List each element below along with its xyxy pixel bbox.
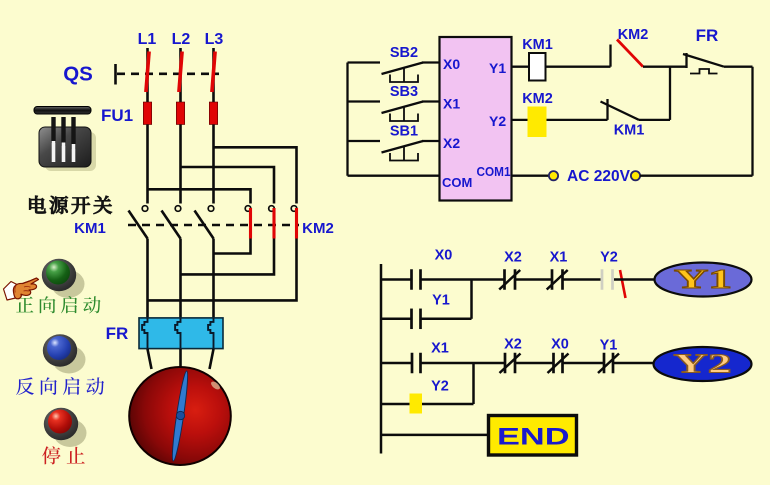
svg-text:Y1: Y1 [674, 264, 732, 294]
svg-text:QS: QS [63, 63, 93, 86]
svg-text:FR: FR [696, 26, 719, 45]
svg-text:FU1: FU1 [101, 106, 133, 125]
wire motor lead 2 [179, 349, 182, 369]
svg-text:X2: X2 [504, 337, 522, 353]
svg-text:SB2: SB2 [390, 45, 418, 61]
ladder contact X1 NC (rung1) [551, 269, 554, 290]
contactor KM2 fixed contact circle [269, 206, 275, 212]
svg-text:X1: X1 [431, 341, 449, 357]
wire L3 column [212, 125, 215, 204]
ladder END rung wire [381, 434, 487, 437]
contact KM1 NC fixed bar [606, 99, 608, 120]
ladder contact X2 NC (rung1) [503, 269, 506, 290]
motor propeller hub [176, 411, 184, 419]
contactor KM1 fixed contact circle [208, 206, 214, 212]
pushbutton SB2 left wire [348, 61, 381, 63]
ladder output coil Y2 ellipse [654, 347, 752, 381]
svg-text:Y1: Y1 [600, 338, 618, 354]
wire L2 branch to KM2 middle [181, 167, 275, 204]
thermal relay FR heater element [175, 318, 180, 349]
button dome [46, 261, 70, 285]
svg-text:X2: X2 [443, 135, 460, 151]
contact FR thermal bump symbol [690, 69, 718, 74]
wire terminal to right bus [640, 175, 753, 177]
svg-text:Y1: Y1 [489, 60, 506, 76]
pushbutton SB2 blade [382, 63, 424, 75]
wire junction vertical Y2 to Y1 line [669, 67, 671, 120]
switch QS knife-switch prong [51, 117, 55, 143]
ladder rung2 wire rail to X1 [381, 362, 412, 365]
ladder branch2 wire Y2 to junction [422, 403, 474, 406]
wire L1 column [146, 125, 149, 204]
pushbutton SB3 left wire [348, 100, 381, 102]
svg-text:Y1: Y1 [432, 293, 450, 309]
switch QS knife-switch prong [71, 117, 75, 149]
wire Y1 to KM1 coil [512, 66, 530, 68]
ladder rung1 wire X1 to Y2 [563, 278, 601, 281]
svg-text:X0: X0 [551, 337, 569, 353]
text 停止 (stop) [42, 446, 61, 464]
ladder left power rail [380, 264, 383, 454]
svg-text:Y2: Y2 [600, 250, 618, 266]
wire KM2 middle output crossing to phase2 [181, 239, 275, 275]
switch QS knife-switch handle bar [34, 107, 91, 115]
ladder contact X2 NC (rung2) [504, 353, 507, 374]
wire COM line [348, 175, 440, 177]
fuse FU1 element [209, 102, 217, 125]
ladder rung2 wire X0 to Y1 [563, 362, 605, 365]
pushbutton SB3 blade [382, 102, 424, 114]
svg-text:Y2: Y2 [489, 113, 506, 129]
coil KM2 (energized, yellow) [528, 107, 547, 138]
switch QS knife-switch blade slot [72, 144, 76, 162]
svg-text:X0: X0 [435, 248, 453, 264]
ladder contact X1 (NO, rung2) [411, 353, 414, 374]
button dome [47, 336, 71, 360]
pushbutton SB1 right wire [422, 140, 440, 142]
ladder rung1 wire X2 to X1 [515, 278, 552, 281]
svg-text:L1: L1 [138, 31, 157, 48]
button shadow [53, 346, 86, 374]
text 正向启动 (forward start) [16, 297, 33, 313]
wire right bus [751, 67, 753, 176]
wire KM2 coil to KM1 NC contact [547, 119, 608, 121]
ladder rung1 wire X0 to X2 [421, 278, 505, 281]
wire L3 branch to KM2 right [214, 147, 297, 203]
wire phase column top [212, 48, 215, 102]
ladder rung2 wire X2 to X0 [515, 362, 554, 365]
button base [43, 334, 77, 367]
wire phase column top [146, 48, 149, 102]
switch QS red blade [146, 52, 149, 93]
ladder contact X0 NC (rung2) [552, 353, 555, 374]
svg-text:KM1: KM1 [74, 220, 106, 237]
ladder branch2 junction vertical [472, 363, 475, 404]
svg-text:SB3: SB3 [390, 84, 418, 100]
ladder branch junction vertical [470, 280, 473, 319]
svg-text:COM1: COM1 [477, 165, 511, 179]
switch QS linkage dashed line [117, 73, 219, 76]
pushbutton SB2 right wire [422, 61, 440, 63]
thermal relay FR box [139, 318, 223, 349]
svg-text:KM2: KM2 [302, 220, 334, 237]
thermal relay FR heater element [208, 318, 213, 349]
switch QS knife-switch icon shadow [45, 132, 96, 171]
wire L2 column [179, 125, 182, 204]
svg-text:L2: L2 [172, 31, 191, 48]
svg-text:X1: X1 [550, 250, 568, 266]
svg-text:END: END [497, 424, 570, 451]
ladder rung1 wire rail to X0 [381, 278, 412, 281]
contact KM2 NC fixed bar [609, 45, 611, 67]
ladder branch2 wire rail to Y2 contact [381, 403, 410, 406]
wire KM2 right output crossing to phase1 [148, 239, 297, 301]
ladder branch wire Y1 to junction [421, 318, 472, 321]
button base [44, 408, 78, 441]
wire Y2 to KM2 coil [512, 119, 529, 121]
wire motor lead 1 [148, 349, 152, 369]
contactor KM2 blade (closed, live) [295, 208, 298, 239]
contactor KM1 blade (open) [195, 211, 214, 239]
svg-text:X0: X0 [443, 56, 460, 72]
button base [42, 259, 76, 292]
ladder contact Y2 NC (rung1, just opened - gray bars) [601, 269, 604, 290]
pushbutton SB1 blade [382, 141, 424, 153]
wire KM2 NC to FR junction [643, 66, 687, 68]
ladder contact Y1 (NO, branch) [410, 309, 413, 330]
switch QS red blade [212, 52, 215, 93]
fuse FU1 element [176, 102, 184, 125]
svg-text:X1: X1 [443, 96, 460, 112]
switch QS knife-switch blade slot [52, 141, 56, 162]
switch QS left tick [114, 64, 117, 85]
text 反向启动 (reverse start) [16, 377, 34, 394]
ladder contact X0 (NO) [410, 269, 413, 290]
contactor KM2 blade (closed, live) [249, 208, 252, 239]
wire KM2 left output crossing to phase3 [214, 239, 251, 254]
switch QS red blade [179, 52, 182, 93]
KM1-KM2 mechanical linkage dashed [128, 224, 299, 226]
contactor KM1 fixed contact circle [175, 206, 181, 212]
svg-text:L3: L3 [205, 31, 224, 48]
svg-text:X2: X2 [504, 250, 522, 266]
wire KM1 outputs down [146, 239, 149, 318]
wire motor lead 3 [210, 349, 214, 369]
svg-text:Y2: Y2 [431, 379, 449, 395]
text 电源开关 (power switch) [29, 196, 46, 213]
svg-text:SB1: SB1 [390, 124, 418, 140]
pushbutton SB1 left wire [348, 140, 381, 142]
terminal circle right [631, 171, 640, 180]
switch QS knife-switch blade slot [62, 143, 66, 163]
svg-text:KM1: KM1 [614, 123, 645, 139]
wire KM1 coil to KM2 NC contact [546, 66, 611, 68]
wire phase column top [179, 48, 182, 102]
ladder contact Y1 NC (rung2) [603, 353, 606, 374]
contactor KM1 blade (open) [129, 211, 148, 239]
PLC box [440, 37, 512, 201]
ladder rung2 wire X1 to X2 [421, 362, 506, 365]
contactor KM2 fixed contact circle [291, 206, 297, 212]
contact KM2 NC blade (open, red) [617, 40, 643, 67]
button dome [48, 410, 72, 434]
svg-text:COM: COM [442, 175, 472, 190]
fuse FU1 element [143, 102, 151, 125]
contact KM1 NC blade [601, 102, 640, 120]
pushbutton SB1 actuator [390, 147, 418, 161]
pushbutton SB2 actuator [390, 68, 418, 82]
ladder contact Y2 NC red slash [620, 270, 626, 298]
svg-text:KM2: KM2 [522, 91, 553, 107]
wire KM1 NC to junction [639, 119, 670, 121]
contactor KM2 fixed contact circle [245, 206, 251, 212]
wire left input bus [346, 63, 348, 176]
contactor KM2 blade (closed, live) [272, 208, 275, 239]
switch QS knife-switch prong [61, 117, 65, 146]
ladder END box [489, 416, 577, 456]
ladder contact Y2 energized highlight [410, 394, 423, 414]
motor propeller blade [170, 370, 190, 461]
ladder rung2 wire Y1 to coil Y2 [613, 362, 655, 365]
coil KM1 (de-energized, white) [529, 53, 546, 81]
motor M body [129, 367, 231, 465]
thermal relay FR heater element [142, 318, 147, 349]
svg-text:KM2: KM2 [618, 27, 649, 43]
contactor KM1 blade (open) [162, 211, 181, 239]
ladder rung1 wire Y2 to coil Y1 [614, 278, 656, 281]
switch QS knife-switch body [39, 127, 91, 167]
button shadow [52, 270, 85, 298]
wire FR to right bus [724, 66, 753, 68]
wire COM1 to terminal [512, 175, 550, 177]
contactor KM1 fixed contact circle [142, 206, 148, 212]
svg-text:Y2: Y2 [674, 349, 732, 379]
ladder branch wire rail to Y1 contact [381, 318, 412, 321]
pushbutton SB3 actuator [390, 107, 418, 121]
contact FR fixed bar [685, 53, 687, 68]
terminal circle left [549, 171, 558, 180]
motor specular glint [210, 380, 222, 391]
svg-text:AC 220V: AC 220V [567, 168, 631, 185]
ladder output coil Y1 ellipse [655, 263, 752, 297]
contact FR blade [683, 54, 724, 67]
svg-text:FR: FR [106, 324, 129, 343]
pointer hand icon [4, 278, 39, 300]
button shadow [54, 419, 87, 447]
svg-text:KM1: KM1 [522, 37, 553, 53]
pushbutton SB3 right wire [422, 100, 440, 102]
wire L1 branch to KM2 left [148, 189, 251, 203]
